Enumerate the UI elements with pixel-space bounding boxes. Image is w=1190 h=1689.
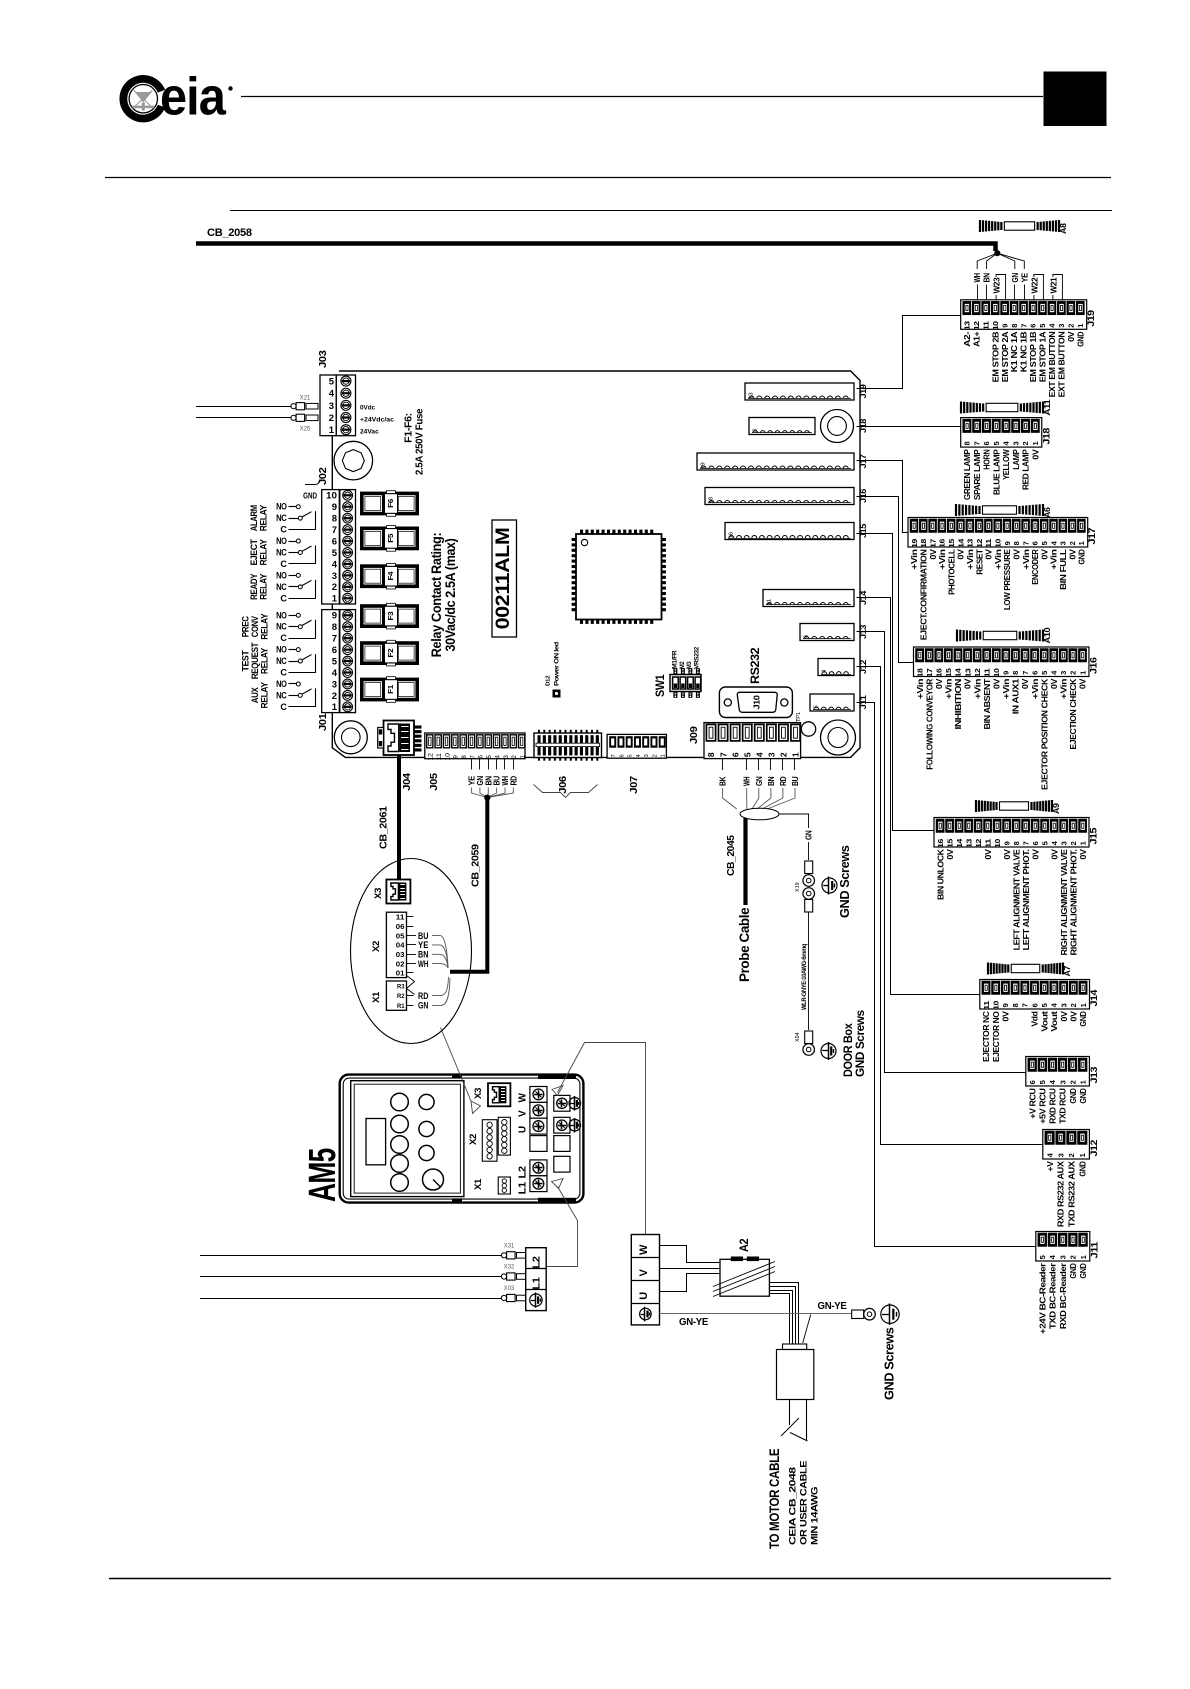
wire J11 to terminal block xyxy=(857,703,1037,1247)
svg-text:1: 1 xyxy=(791,752,801,757)
svg-text:1: 1 xyxy=(332,702,338,713)
svg-text:CB_2045: CB_2045 xyxy=(726,835,737,876)
svg-text:CB_2059: CB_2059 xyxy=(470,844,482,887)
svg-text:CB_2058: CB_2058 xyxy=(207,227,252,239)
svg-text:0V: 0V xyxy=(983,849,993,860)
bubble wire RD xyxy=(418,977,449,1001)
svg-text:J06: J06 xyxy=(558,775,569,793)
svg-text:17: 17 xyxy=(925,668,934,677)
svg-text:F1: F1 xyxy=(386,685,395,694)
svg-text:16: 16 xyxy=(729,532,735,539)
svg-text:RELAY: RELAY xyxy=(260,682,270,708)
svg-text:J15: J15 xyxy=(1089,827,1100,845)
svg-text:TP1: TP1 xyxy=(796,712,802,722)
svg-text:10: 10 xyxy=(993,539,1002,548)
svg-text:+Vin: +Vin xyxy=(915,679,925,699)
svg-text:1: 1 xyxy=(1078,671,1087,675)
svg-text:LAMP: LAMP xyxy=(1011,449,1021,470)
svg-text:EJECTOR POSITION CHECK: EJECTOR POSITION CHECK xyxy=(1039,678,1049,790)
svg-text:8: 8 xyxy=(753,429,759,432)
terminal block J14 xyxy=(980,980,1100,1063)
svg-text:W22: W22 xyxy=(1029,277,1039,293)
svg-text:GN: GN xyxy=(755,776,764,786)
wire J18 to terminal block xyxy=(857,426,961,428)
junction CB_2058 fanout xyxy=(995,251,1000,256)
svg-text:L2: L2 xyxy=(531,1256,543,1269)
svg-text:J09: J09 xyxy=(689,726,700,744)
svg-text:ALARM: ALARM xyxy=(249,505,259,531)
svg-text:19: 19 xyxy=(910,539,919,548)
GND screw bottom xyxy=(881,1305,899,1323)
svg-text:GN: GN xyxy=(805,830,814,840)
svg-text:2: 2 xyxy=(652,754,658,757)
svg-text:LEFT ALIGNMENT VALVE: LEFT ALIGNMENT VALVE xyxy=(1011,849,1021,951)
svg-text:GND Screws: GND Screws xyxy=(883,1327,897,1400)
svg-text:C: C xyxy=(280,702,287,712)
svg-text:J03: J03 xyxy=(318,350,329,368)
svg-text:J14: J14 xyxy=(1089,989,1100,1007)
board connector J19 xyxy=(745,383,854,400)
svg-text:+V RCU: +V RCU xyxy=(1027,1088,1037,1118)
svg-text:OR USER CABLE: OR USER CABLE xyxy=(799,1461,810,1545)
GND screw symbol door box xyxy=(821,1044,836,1059)
svg-text:15: 15 xyxy=(947,539,956,548)
svg-text:8: 8 xyxy=(332,622,337,633)
terminal block J12 xyxy=(1043,1130,1100,1228)
svg-text:X04: X04 xyxy=(795,1032,801,1042)
svg-text:RELAY: RELAY xyxy=(259,505,269,531)
svg-text:10: 10 xyxy=(993,839,1002,848)
svg-text:5: 5 xyxy=(1038,1080,1047,1084)
fuse F4 xyxy=(361,563,419,589)
svg-text:BIN UNLOCK: BIN UNLOCK xyxy=(935,848,945,900)
svg-text:+Vin: +Vin xyxy=(944,679,954,699)
svg-text:RD: RD xyxy=(509,776,518,786)
svg-text:J01: J01 xyxy=(318,713,329,731)
svg-text:7: 7 xyxy=(1021,1003,1030,1007)
svg-text:J12: J12 xyxy=(1089,1140,1100,1157)
wire mains L1 xyxy=(200,1276,502,1278)
svg-text:12: 12 xyxy=(974,839,983,848)
DB9 connector J10 xyxy=(719,687,792,718)
svg-text:0V: 0V xyxy=(1068,1011,1078,1022)
junction J05 bundle xyxy=(485,795,490,800)
svg-text:GND Screws: GND Screws xyxy=(838,845,852,918)
svg-text:0V: 0V xyxy=(1030,449,1040,460)
svg-text:EJECTOR NC: EJECTOR NC xyxy=(981,1010,991,1062)
svg-text:J11: J11 xyxy=(859,694,868,709)
svg-text:3: 3 xyxy=(644,754,650,757)
svg-text:15: 15 xyxy=(945,839,954,848)
faston X19 ground xyxy=(795,861,815,912)
svg-text:5: 5 xyxy=(1040,841,1049,845)
svg-text:30Vac/dc 2.5A (max): 30Vac/dc 2.5A (max) xyxy=(443,539,458,652)
svg-text:CONV: CONV xyxy=(250,616,260,637)
svg-text:A6: A6 xyxy=(1042,507,1052,518)
svg-text:L2: L2 xyxy=(517,1166,529,1179)
svg-text:14: 14 xyxy=(956,538,965,548)
svg-text:3: 3 xyxy=(1059,541,1068,545)
wire GN to J19 xyxy=(997,253,1020,300)
wire V to A2 xyxy=(660,1268,721,1270)
connector J05 xyxy=(425,733,527,761)
svg-text:RXD BC-Reader: RXD BC-Reader xyxy=(1058,1262,1068,1329)
svg-text:REQUEST: REQUEST xyxy=(250,642,260,679)
svg-text:NC: NC xyxy=(276,548,287,558)
svg-text:NO: NO xyxy=(276,645,287,655)
svg-text:J16: J16 xyxy=(1088,657,1099,674)
wire J12 to terminal block xyxy=(857,667,1044,1145)
svg-text:1: 1 xyxy=(329,425,335,436)
svg-text:GND Screws: GND Screws xyxy=(855,1010,867,1077)
svg-text:RD: RD xyxy=(418,991,429,1001)
svg-text:13: 13 xyxy=(749,392,755,399)
svg-text:2: 2 xyxy=(1021,441,1030,445)
svg-text:SW1: SW1 xyxy=(653,674,667,697)
svg-text:2: 2 xyxy=(332,582,337,593)
svg-text:GND: GND xyxy=(1078,1263,1088,1278)
svg-text:8: 8 xyxy=(1012,841,1021,845)
wire RD from J09 xyxy=(762,759,788,809)
svg-text:+Vin: +Vin xyxy=(1058,679,1068,699)
svg-text:HORN: HORN xyxy=(982,449,992,469)
jumper W23 on J19 xyxy=(992,275,1006,301)
svg-text:2: 2 xyxy=(779,752,789,757)
svg-text:0V: 0V xyxy=(1059,1011,1069,1022)
svg-text:3: 3 xyxy=(767,752,777,757)
svg-text:NO: NO xyxy=(276,536,287,546)
wire BU from J09 xyxy=(767,759,800,809)
cable CB_2058 xyxy=(196,244,996,252)
svg-text:R2: R2 xyxy=(397,993,405,1000)
svg-text:6: 6 xyxy=(982,441,991,445)
svg-text:X1: X1 xyxy=(473,1178,484,1190)
svg-text:1: 1 xyxy=(1078,1080,1087,1084)
GND screw symbol upper xyxy=(822,878,837,893)
svg-text:2: 2 xyxy=(329,413,334,424)
bubble wire GN xyxy=(418,978,450,1011)
mounting hole bottom right xyxy=(821,720,856,755)
svg-text:+V: +V xyxy=(1045,1161,1055,1172)
faston X25 xyxy=(291,414,318,432)
svg-text:9: 9 xyxy=(1002,841,1011,845)
svg-text:GND: GND xyxy=(1068,1263,1078,1278)
svg-text:A10: A10 xyxy=(1042,627,1052,644)
dip switch SW1 xyxy=(670,668,701,698)
svg-text:J10: J10 xyxy=(753,694,762,709)
svg-text:11: 11 xyxy=(984,539,993,548)
svg-text:0V: 0V xyxy=(1030,849,1040,860)
svg-text:13: 13 xyxy=(963,321,972,330)
PCB board outline xyxy=(332,371,860,757)
svg-text:7: 7 xyxy=(1021,671,1030,675)
connector J02 xyxy=(322,490,356,605)
svg-text:PREC: PREC xyxy=(241,615,251,637)
svg-text:+24V BC-Reader: +24V BC-Reader xyxy=(1037,1262,1047,1334)
svg-text:V: V xyxy=(518,1110,529,1117)
ferrite A9 xyxy=(975,800,977,812)
svg-text:4: 4 xyxy=(329,389,335,400)
svg-text:GN-YE: GN-YE xyxy=(679,1317,709,1328)
svg-text:J19: J19 xyxy=(1086,310,1097,327)
panel top line xyxy=(230,210,1112,212)
svg-text:5: 5 xyxy=(329,377,335,388)
svg-text:6: 6 xyxy=(1029,324,1038,328)
svg-text:7: 7 xyxy=(611,754,617,757)
ferrite A10 xyxy=(956,630,958,642)
svg-text:5: 5 xyxy=(628,754,634,757)
bubble wire YE xyxy=(414,940,449,968)
svg-text:D12: D12 xyxy=(546,676,552,686)
svg-text:8: 8 xyxy=(1010,324,1019,328)
svg-text:+Vin: +Vin xyxy=(1030,679,1040,699)
svg-text:0V: 0V xyxy=(1002,849,1012,860)
svg-text:Vdd: Vdd xyxy=(1030,1011,1040,1026)
svg-text:8: 8 xyxy=(1011,671,1020,675)
AM5 buttons xyxy=(391,1093,434,1191)
svg-text:3: 3 xyxy=(332,571,337,582)
board connector J15 xyxy=(725,523,854,540)
svg-text:DOOR Box: DOOR Box xyxy=(843,1023,855,1077)
svg-text:11: 11 xyxy=(982,668,991,677)
svg-text:V: V xyxy=(638,1268,650,1276)
wire J17 to terminal block xyxy=(857,461,909,533)
svg-text:X25: X25 xyxy=(300,427,311,433)
svg-text:WH: WH xyxy=(973,273,982,283)
ground lug GN-YE xyxy=(852,1308,876,1320)
svg-text:12: 12 xyxy=(973,668,982,677)
svg-text:6: 6 xyxy=(1031,541,1040,545)
svg-text:J17: J17 xyxy=(1087,528,1098,545)
svg-text:GND: GND xyxy=(1075,332,1085,347)
svg-text:05: 05 xyxy=(396,931,405,940)
mounting hole below J03 xyxy=(334,441,373,480)
svg-text:A1+: A1+ xyxy=(971,331,981,346)
terminal block L2 L1 PE xyxy=(526,1248,547,1311)
wire GN-YE ground xyxy=(660,1301,852,1343)
svg-text:11: 11 xyxy=(767,599,773,606)
svg-text:6: 6 xyxy=(1031,841,1040,845)
svg-text:6: 6 xyxy=(332,536,337,547)
relay contacts PREC CONV RELAY xyxy=(241,610,316,643)
svg-text:9: 9 xyxy=(332,611,337,622)
relay contacts TEST REQUEST RELAY xyxy=(241,642,316,679)
board connector J12 xyxy=(818,659,854,676)
wire J16 to terminal block xyxy=(857,497,915,663)
svg-text:MIN 14AWG: MIN 14AWG xyxy=(810,1487,821,1545)
wire RD from J05 xyxy=(487,759,518,798)
svg-text:6: 6 xyxy=(332,645,337,656)
svg-text:5: 5 xyxy=(1040,1003,1049,1007)
svg-text:24Vac: 24Vac xyxy=(360,429,379,436)
svg-text:0V: 0V xyxy=(934,678,944,689)
svg-text:2: 2 xyxy=(1068,1080,1077,1084)
svg-text:GREEN LAMP: GREEN LAMP xyxy=(962,449,972,500)
svg-text:TXD RS232 AUX: TXD RS232 AUX xyxy=(1067,1161,1077,1227)
microcontroller U1 xyxy=(576,530,662,624)
svg-text:C: C xyxy=(280,593,287,603)
faston X04 door box xyxy=(795,1031,815,1055)
svg-text:A11: A11 xyxy=(1042,399,1052,416)
wires A2 to motor cable xyxy=(770,1283,799,1345)
leader AM5 L1 to L2L1 block xyxy=(547,1179,578,1267)
SW1 switch names xyxy=(672,646,701,669)
AM5 front panel xyxy=(351,1081,464,1197)
svg-text:7: 7 xyxy=(1021,841,1030,845)
svg-text:1: 1 xyxy=(1078,841,1087,845)
svg-text:TEST: TEST xyxy=(241,650,251,672)
svg-text:CB_2061: CB_2061 xyxy=(378,806,390,849)
svg-text:8: 8 xyxy=(963,441,972,445)
svg-text:3: 3 xyxy=(1011,441,1020,445)
connector J06 xyxy=(534,730,602,761)
wire mains L2 xyxy=(200,1255,502,1257)
svg-text:F4: F4 xyxy=(386,571,395,581)
AM5 drive body xyxy=(340,1074,584,1203)
wire BK from J09 xyxy=(719,759,737,809)
svg-text:8: 8 xyxy=(1011,1003,1020,1007)
svg-text:6: 6 xyxy=(804,635,810,638)
svg-text:U: U xyxy=(638,1292,650,1300)
svg-text:14: 14 xyxy=(955,838,964,848)
svg-text:RIGHT ALIGNMENT PHOT.: RIGHT ALIGNMENT PHOT. xyxy=(1068,849,1078,955)
svg-text:18: 18 xyxy=(915,668,924,677)
svg-text:NO: NO xyxy=(276,679,287,689)
svg-text:BK: BK xyxy=(719,776,728,786)
svg-text:2.5A 250V Fuse: 2.5A 250V Fuse xyxy=(414,408,426,475)
svg-text:5: 5 xyxy=(1038,1255,1047,1259)
svg-text:+Vin: +Vin xyxy=(1001,679,1011,699)
svg-text:9: 9 xyxy=(1001,1003,1010,1007)
board connector J13 xyxy=(800,624,854,641)
bubble wire WH xyxy=(414,959,449,969)
svg-text:04: 04 xyxy=(396,941,406,950)
svg-text:W23: W23 xyxy=(992,277,1002,293)
svg-text:F2: F2 xyxy=(386,649,395,658)
svg-text:L1: L1 xyxy=(517,1182,529,1195)
fuse F3 xyxy=(361,603,419,629)
connector J03 xyxy=(320,375,356,436)
terminal block J18 xyxy=(961,418,1053,501)
svg-text:16: 16 xyxy=(936,839,945,848)
svg-text:YE: YE xyxy=(1020,272,1029,282)
svg-text:BN: BN xyxy=(767,776,776,786)
svg-text:A8: A8 xyxy=(1058,223,1068,234)
svg-text:NC: NC xyxy=(276,690,287,700)
svg-text:YELLOW: YELLOW xyxy=(1001,449,1011,480)
probe cable bundle ellipse xyxy=(740,808,779,820)
J03 pin value labels xyxy=(360,405,394,436)
wire GN from probe bundle xyxy=(779,814,814,860)
AM5 X2 connector xyxy=(482,1117,510,1161)
svg-text:J07: J07 xyxy=(629,775,640,793)
svg-text:RS232: RS232 xyxy=(750,648,762,684)
leader AM5 W to WVU block xyxy=(552,1043,646,1235)
svg-text:01: 01 xyxy=(396,969,405,978)
svg-text:RXD RS232 AUX: RXD RS232 AUX xyxy=(1056,1161,1066,1227)
svg-text:5: 5 xyxy=(332,548,338,559)
svg-text:4: 4 xyxy=(822,670,828,673)
svg-text:M3: M3 xyxy=(686,661,693,669)
svg-text:Relay Contact Rating:: Relay Contact Rating: xyxy=(429,533,444,658)
board name 00211ALM xyxy=(492,520,517,637)
svg-text:X32: X32 xyxy=(504,1265,515,1271)
relay contacts AUX RELAY xyxy=(250,679,316,712)
board connector J16 xyxy=(705,488,854,505)
cable CB_2061 xyxy=(397,756,401,880)
header rule xyxy=(241,96,1043,98)
svg-text:1: 1 xyxy=(1079,1003,1088,1007)
svg-text:J18: J18 xyxy=(1041,428,1052,445)
svg-text:3: 3 xyxy=(1058,1255,1067,1259)
svg-text:C: C xyxy=(280,668,287,678)
AM5 terminals W V U xyxy=(518,1087,548,1152)
svg-text:0V: 0V xyxy=(1001,1011,1011,1022)
svg-text:1: 1 xyxy=(1031,441,1040,445)
svg-text:12: 12 xyxy=(975,539,984,548)
svg-text:A7: A7 xyxy=(1062,965,1072,976)
svg-text:READY: READY xyxy=(249,573,259,599)
svg-text:2: 2 xyxy=(1069,671,1078,675)
svg-text:13: 13 xyxy=(963,668,972,677)
wire BN from J09 xyxy=(757,759,776,809)
svg-text:2: 2 xyxy=(1069,1003,1078,1007)
svg-text:NO: NO xyxy=(276,610,287,620)
bottom separator rule xyxy=(109,1578,1111,1580)
svg-text:EJECT: EJECT xyxy=(249,539,259,566)
wire U to A2 xyxy=(660,1274,721,1292)
svg-text:NC: NC xyxy=(276,656,287,666)
svg-text:C: C xyxy=(280,559,287,569)
svg-text:6: 6 xyxy=(1030,1003,1039,1007)
svg-text:10: 10 xyxy=(991,1001,1000,1010)
fuse F6 xyxy=(361,491,419,517)
svg-text:17: 17 xyxy=(928,539,937,548)
svg-text:RELAY: RELAY xyxy=(260,613,270,639)
AM5 X3 jack xyxy=(488,1083,510,1106)
svg-text:4: 4 xyxy=(754,752,764,757)
cable CB_2059 xyxy=(450,799,487,972)
board connector J14 xyxy=(763,590,854,607)
cable CB_2045 xyxy=(743,818,747,905)
svg-text:RELAY: RELAY xyxy=(260,648,270,674)
svg-text:IN AUX1: IN AUX1 xyxy=(1011,678,1021,714)
AM5 side screws xyxy=(554,1095,581,1172)
svg-text:3: 3 xyxy=(1057,324,1066,328)
svg-text:GND: GND xyxy=(1068,1088,1078,1103)
chip side pins xyxy=(572,540,666,610)
svg-text:6: 6 xyxy=(1030,671,1039,675)
wire J13 to terminal block xyxy=(857,632,1027,1073)
connector J04 (RJ45) xyxy=(378,721,422,756)
svg-text:EJECTOR NO: EJECTOR NO xyxy=(991,1011,1001,1062)
AM5 knob xyxy=(423,1169,444,1190)
svg-text:AUX: AUX xyxy=(250,687,260,703)
svg-text:J16: J16 xyxy=(859,488,868,503)
mounting hole below J01 xyxy=(334,721,367,754)
svg-text:0V: 0V xyxy=(1049,678,1059,689)
svg-text:2: 2 xyxy=(332,691,337,702)
svg-text:1: 1 xyxy=(661,754,667,757)
svg-text:NC: NC xyxy=(276,622,287,632)
svg-text:GND: GND xyxy=(303,492,317,501)
svg-text:7: 7 xyxy=(972,441,981,445)
svg-text:13: 13 xyxy=(966,539,975,548)
terminal block J13 xyxy=(1026,1057,1100,1124)
svg-text:0Vdc: 0Vdc xyxy=(360,405,375,412)
svg-text:NC: NC xyxy=(276,513,287,523)
svg-text:X2: X2 xyxy=(371,941,382,952)
